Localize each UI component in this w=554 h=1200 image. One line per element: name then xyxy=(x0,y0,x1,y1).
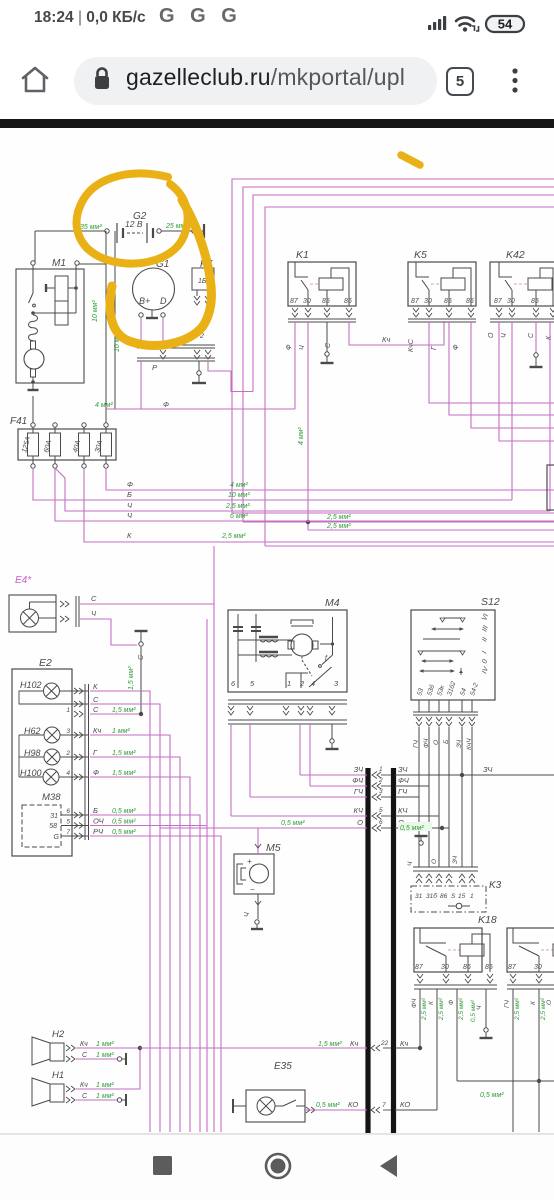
H1 wire С to terminal xyxy=(76,1094,126,1106)
svg-text:31: 31 xyxy=(415,893,423,900)
svg-text:М5: М5 xyxy=(266,842,281,854)
E2 wire ОЧ xyxy=(90,817,207,1133)
svg-text:4 мм²: 4 мм² xyxy=(95,402,113,409)
svg-text:Кч: Кч xyxy=(350,1039,358,1048)
resistor R7 xyxy=(192,259,215,305)
connector box right edge xyxy=(547,465,554,510)
svg-text:0,5 мм²: 0,5 мм² xyxy=(400,825,424,832)
svg-text:Ф: Ф xyxy=(93,768,99,777)
svg-text:5: 5 xyxy=(379,807,383,814)
menu dots xyxy=(508,64,522,98)
svg-text:87: 87 xyxy=(290,298,299,305)
svg-text:2: 2 xyxy=(378,777,383,784)
svg-text:S12: S12 xyxy=(481,596,500,608)
K18 wires down xyxy=(411,989,553,1132)
E2 wire К xyxy=(90,682,150,1132)
nav back triangle xyxy=(376,1152,402,1180)
svg-text:2,5 мм²: 2,5 мм² xyxy=(225,503,250,510)
svg-text:Ч: Ч xyxy=(244,912,251,917)
yellow marker circle around G1 xyxy=(110,200,211,345)
svg-text:Н2: Н2 xyxy=(52,1029,65,1040)
K1 wires xyxy=(295,322,329,522)
status icons right xyxy=(420,8,540,38)
horn H2 xyxy=(32,1029,114,1065)
relay K1 xyxy=(286,249,356,350)
wires to connector xyxy=(160,775,367,828)
svg-text:87: 87 xyxy=(411,298,420,305)
E2 wire Г xyxy=(90,748,180,1132)
svg-text:G: G xyxy=(54,834,60,841)
svg-text:K3: K3 xyxy=(489,880,502,891)
svg-text:Ч: Ч xyxy=(407,861,414,866)
svg-text:7: 7 xyxy=(382,1102,386,1109)
svg-text:ФЧ: ФЧ xyxy=(423,738,430,748)
signal bars xyxy=(428,16,446,30)
svg-text:Р: Р xyxy=(152,363,157,372)
horn H1 xyxy=(32,1070,114,1106)
lamp cluster E2 xyxy=(12,657,72,856)
svg-text:31б: 31б xyxy=(426,892,437,900)
svg-text:Н1: Н1 xyxy=(52,1070,64,1081)
svg-text:2,5 мм²: 2,5 мм² xyxy=(421,997,428,1021)
M5 ground xyxy=(244,894,263,929)
svg-text:О: О xyxy=(488,332,495,338)
M4 wires down xyxy=(231,724,310,816)
svg-text:2,5 мм²: 2,5 мм² xyxy=(326,523,351,530)
nav bar xyxy=(0,1135,554,1200)
svg-text:K18: K18 xyxy=(478,914,497,926)
svg-text:30: 30 xyxy=(424,298,432,305)
svg-text:0,5 мм²: 0,5 мм² xyxy=(316,1102,340,1109)
battery pill 54 xyxy=(486,16,524,32)
svg-text:86: 86 xyxy=(440,893,448,900)
svg-text:0,5 мм²: 0,5 мм² xyxy=(281,820,305,827)
generator G1 xyxy=(133,259,175,317)
svg-text:K5: K5 xyxy=(414,249,427,261)
svg-text:Кч: Кч xyxy=(93,726,101,735)
svg-text:4: 4 xyxy=(311,679,315,688)
svg-text:Ф: Ф xyxy=(127,480,133,489)
svg-text:87: 87 xyxy=(508,964,517,971)
svg-text:КчС: КчС xyxy=(408,338,415,352)
svg-text:7: 7 xyxy=(66,829,70,836)
wiring loom bar right xyxy=(391,768,396,1133)
E2 wire С xyxy=(90,705,143,716)
svg-text:K1: K1 xyxy=(296,249,309,261)
svg-text:М4: М4 xyxy=(325,597,340,609)
svg-text:Ч: Ч xyxy=(299,345,306,350)
svg-text:1Б: 1Б xyxy=(198,278,207,285)
svg-text:ГЧ: ГЧ xyxy=(413,739,420,748)
lamp E4 xyxy=(9,575,79,632)
svg-text:1,5 мм²: 1,5 мм² xyxy=(112,707,136,714)
wire battery to starter xyxy=(35,231,121,424)
svg-text:3: 3 xyxy=(66,728,70,735)
svg-text:ГЧ: ГЧ xyxy=(398,787,408,796)
S12 connector bus xyxy=(413,700,478,726)
svg-text:О: О xyxy=(433,740,440,745)
relay K18 right xyxy=(507,928,554,989)
svg-text:4 мм²: 4 мм² xyxy=(298,427,305,445)
svg-text:85: 85 xyxy=(531,298,539,305)
lock icon xyxy=(93,66,111,94)
connector row Кч pin 22 xyxy=(371,1039,422,1051)
svg-text:1 мм²: 1 мм² xyxy=(96,1041,114,1048)
svg-text:КЧ: КЧ xyxy=(398,806,408,815)
lamp E35 xyxy=(233,1061,305,1122)
E2 connector edge xyxy=(65,684,88,840)
svg-text:Кч: Кч xyxy=(80,1041,88,1048)
svg-text:ЗЧ: ЗЧ xyxy=(398,765,408,774)
svg-text:1 мм²: 1 мм² xyxy=(96,1052,114,1059)
svg-text:О: О xyxy=(431,859,438,864)
starter M1 xyxy=(16,258,84,384)
svg-text:30: 30 xyxy=(441,964,449,971)
svg-text:6 мм²: 6 мм² xyxy=(230,513,248,520)
ignition switch S12 xyxy=(411,596,500,700)
ground under M1 xyxy=(28,383,39,390)
svg-text:0,5 мм²: 0,5 мм² xyxy=(112,819,136,826)
wire Ф fuse row xyxy=(106,468,554,490)
wire К row xyxy=(84,468,554,542)
svg-text:Кч: Кч xyxy=(382,335,390,344)
connector row ГЧ pin 3 xyxy=(354,787,408,801)
svg-text:12 В: 12 В xyxy=(125,219,143,229)
svg-text:86: 86 xyxy=(463,964,471,971)
wire Ф 4мм xyxy=(95,400,295,409)
fuse box F41 xyxy=(10,396,116,468)
E2 wire С xyxy=(90,695,160,1132)
svg-text:Б: Б xyxy=(127,490,132,499)
connector row ФЧ pin 2 xyxy=(352,776,409,790)
E4 wire Ч xyxy=(80,609,137,645)
svg-text:Ф: Ф xyxy=(163,400,169,409)
M4 ground xyxy=(326,724,339,749)
E2 wire Кч xyxy=(90,726,170,1132)
svg-text:КО: КО xyxy=(348,1100,358,1109)
svg-text:1: 1 xyxy=(379,766,383,773)
svg-text:Н100: Н100 xyxy=(20,768,42,778)
relay K42 xyxy=(488,249,554,340)
svg-text:2,5 мм²: 2,5 мм² xyxy=(326,514,351,521)
svg-text:K42: K42 xyxy=(506,249,525,261)
wire Ч row 1 xyxy=(55,468,550,511)
svg-text:С: С xyxy=(91,594,97,603)
connector row КЧ pin 5 xyxy=(354,806,409,820)
home icon xyxy=(18,64,52,98)
svg-text:КчЧ: КчЧ xyxy=(466,738,473,750)
svg-text:87: 87 xyxy=(415,964,424,971)
nav circle button xyxy=(263,1150,293,1182)
svg-text:ГЧ: ГЧ xyxy=(354,787,364,796)
svg-text:B+: B+ xyxy=(139,296,150,306)
svg-text:10 мм²: 10 мм² xyxy=(92,300,99,322)
E2 wire РЧ xyxy=(90,827,221,1132)
svg-text:M1: M1 xyxy=(52,258,66,269)
svg-text:1: 1 xyxy=(287,679,291,688)
svg-text:1: 1 xyxy=(470,893,474,900)
svg-text:Кч: Кч xyxy=(80,1082,88,1089)
svg-text:Ч: Ч xyxy=(501,333,508,338)
svg-text:10 мм²: 10 мм² xyxy=(228,492,250,499)
svg-text:F41: F41 xyxy=(10,416,27,427)
url bar xyxy=(0,45,554,119)
black separator bar xyxy=(0,119,554,128)
svg-text:К: К xyxy=(127,531,132,540)
svg-text:54: 54 xyxy=(498,17,513,32)
svg-text:31: 31 xyxy=(50,813,58,820)
svg-text:0,5 мм²: 0,5 мм² xyxy=(112,808,136,815)
svg-text:ЗЧ: ЗЧ xyxy=(354,765,364,774)
svg-text:К: К xyxy=(93,682,98,691)
svg-text:О: О xyxy=(357,818,363,827)
lamp H102 xyxy=(19,680,88,704)
svg-text:85: 85 xyxy=(322,298,330,305)
svg-text:Е35: Е35 xyxy=(274,1061,292,1072)
svg-text:4: 4 xyxy=(66,770,70,777)
wifi icon xyxy=(456,17,474,25)
ground under bus xyxy=(192,375,206,383)
battery G2 xyxy=(35,211,204,243)
svg-text:58: 58 xyxy=(49,823,57,830)
svg-text:35 мм²: 35 мм² xyxy=(80,224,102,231)
svg-text:Е2: Е2 xyxy=(39,657,52,669)
yellow marker stroke top right xyxy=(401,155,420,165)
svg-text:6: 6 xyxy=(66,808,70,815)
svg-text:85: 85 xyxy=(444,298,452,305)
svg-text:6: 6 xyxy=(379,819,383,826)
svg-text:+: + xyxy=(247,857,252,866)
svg-text:86: 86 xyxy=(466,298,474,305)
svg-text:Б: Б xyxy=(93,806,98,815)
H2 wire С to terminal xyxy=(76,1053,126,1065)
svg-text:1 мм²: 1 мм² xyxy=(112,728,130,735)
svg-text:22: 22 xyxy=(380,1040,389,1047)
module M38 xyxy=(22,792,88,847)
connector row О pin 6 xyxy=(357,818,404,832)
heater motor unit M4 xyxy=(228,597,347,692)
svg-text:2,5 мм²: 2,5 мм² xyxy=(438,997,445,1021)
ground under K42 xyxy=(530,357,543,367)
svg-text:Н98: Н98 xyxy=(24,748,41,758)
E4 wire С xyxy=(80,546,214,1132)
E2 wire Б xyxy=(90,806,200,1132)
wire Ч row 2 xyxy=(55,468,554,521)
svg-text:30: 30 xyxy=(507,298,515,305)
svg-text:86: 86 xyxy=(344,298,352,305)
svg-text:2,5 мм²: 2,5 мм² xyxy=(221,533,246,540)
svg-text:Ф: Ф xyxy=(286,344,293,350)
svg-text:1,5 мм²: 1,5 мм² xyxy=(128,666,135,690)
svg-text:1,5 мм²: 1,5 мм² xyxy=(112,750,136,757)
svg-text:Е4*: Е4* xyxy=(15,575,32,586)
svg-text:КЧ: КЧ xyxy=(354,806,364,815)
svg-text:РЧ: РЧ xyxy=(93,827,104,836)
svg-text:1 мм²: 1 мм² xyxy=(96,1082,114,1089)
svg-text:1,5 мм²: 1,5 мм² xyxy=(318,1041,342,1048)
svg-text:4 мм²: 4 мм² xyxy=(230,482,248,489)
svg-text:2,5 мм²: 2,5 мм² xyxy=(458,997,465,1021)
svg-text:Ч: Ч xyxy=(476,1005,483,1010)
svg-text:1 мм²: 1 мм² xyxy=(96,1093,114,1100)
omnibox pill xyxy=(74,57,437,105)
svg-text:ОЧ: ОЧ xyxy=(93,817,105,826)
svg-text:85: 85 xyxy=(485,964,493,971)
svg-text:О: О xyxy=(546,1000,553,1005)
svg-text:ЗЧ: ЗЧ xyxy=(452,855,459,864)
svg-text:S: S xyxy=(451,893,456,900)
S12 wires down xyxy=(407,727,473,867)
nav bar separator xyxy=(0,1133,554,1135)
wire Кч horns xyxy=(76,1039,367,1089)
svg-text:87: 87 xyxy=(494,298,503,305)
tab counter xyxy=(446,67,474,96)
svg-text:Ф: Ф xyxy=(448,1000,455,1005)
svg-text:5: 5 xyxy=(66,819,70,826)
yellow marker circle around G2 xyxy=(77,173,188,263)
svg-text:−: − xyxy=(250,885,255,894)
relay K5 xyxy=(408,249,476,352)
ground at G1 xyxy=(146,317,158,319)
svg-text:Н62: Н62 xyxy=(24,726,41,736)
nested harness wires top right xyxy=(232,179,554,546)
svg-text:ЗЧ: ЗЧ xyxy=(456,739,463,748)
svg-text:D: D xyxy=(160,296,167,306)
svg-text:ФЧ: ФЧ xyxy=(411,998,418,1008)
svg-text:ГЧ: ГЧ xyxy=(504,999,511,1008)
svg-text:2,5 мм²: 2,5 мм² xyxy=(514,997,521,1021)
status bar xyxy=(0,0,554,45)
wires G1 terminals xyxy=(141,317,201,409)
svg-text:3: 3 xyxy=(379,788,383,795)
E2 wire Ф xyxy=(90,768,190,1132)
svg-text:Кч: Кч xyxy=(400,1039,408,1048)
svg-text:30: 30 xyxy=(303,298,311,305)
svg-text:1,5 мм²: 1,5 мм² xyxy=(112,770,136,777)
relay block K3 xyxy=(411,867,502,912)
relay group K18 xyxy=(478,914,497,926)
ground under K18 xyxy=(480,1028,493,1038)
K42 wires xyxy=(499,322,554,511)
svg-text:С: С xyxy=(93,705,99,714)
wire Kч K1-K5 xyxy=(349,322,444,345)
svg-text:Б: Б xyxy=(443,740,450,744)
connector right side wires xyxy=(395,765,554,832)
nav square button xyxy=(150,1152,178,1180)
wiring loom bar left xyxy=(365,768,370,1133)
svg-text:0,5 мм²: 0,5 мм² xyxy=(112,829,136,836)
S12 pin labels xyxy=(416,680,480,697)
svg-text:30: 30 xyxy=(534,964,542,971)
relay K18 left xyxy=(414,928,497,989)
svg-text:15: 15 xyxy=(458,893,466,900)
wire Б row xyxy=(33,468,512,500)
svg-text:Н102: Н102 xyxy=(20,680,42,690)
svg-text:0,5 мм²: 0,5 мм² xyxy=(480,1092,504,1099)
washer motor M5 xyxy=(234,828,281,894)
ground under K1 xyxy=(321,356,334,363)
ground node right xyxy=(415,836,428,845)
connector row ЗЧ pin 1 xyxy=(354,765,409,779)
svg-text:КО: КО xyxy=(400,1100,410,1109)
svg-text:ФЧ: ФЧ xyxy=(352,776,364,785)
svg-text:2: 2 xyxy=(65,750,70,757)
connector bus under G1 xyxy=(137,333,215,372)
svg-text:1: 1 xyxy=(66,707,70,714)
svg-text:Ф: Ф xyxy=(453,344,460,350)
K5 wires xyxy=(429,322,554,428)
wire P7 to relays xyxy=(208,361,253,392)
M4 connector bus xyxy=(228,700,347,724)
svg-text:2: 2 xyxy=(299,679,305,688)
svg-text:М38: М38 xyxy=(42,792,61,803)
ground node C xyxy=(128,631,148,714)
wire КО row xyxy=(305,1100,437,1113)
wire row 1081 xyxy=(457,1079,554,1099)
svg-text:ФЧ: ФЧ xyxy=(398,776,410,785)
svg-text:С: С xyxy=(93,695,99,704)
svg-text:ЗЧ: ЗЧ xyxy=(483,765,493,774)
lamps H62 H98 H100 xyxy=(19,726,88,785)
svg-text:0,5 мм²: 0,5 мм² xyxy=(470,999,477,1022)
